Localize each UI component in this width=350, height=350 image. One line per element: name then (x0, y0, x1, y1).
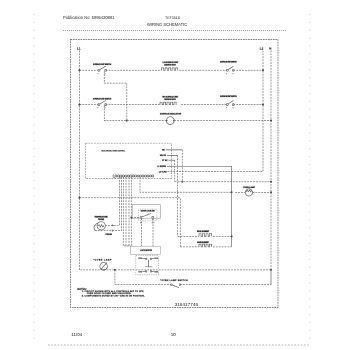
node dot L2 row2 (262, 104, 264, 106)
wire oven lamp branch (235, 191, 245, 193)
node dot BK join (181, 181, 183, 183)
surface unit switch SW3 (98, 101, 107, 106)
svg-text:SURFACE UNIT SWITCH: SURFACE UNIT SWITCH (93, 97, 112, 100)
resistor RH surface unit element (160, 102, 177, 104)
door lock switch inner dashed box (139, 209, 157, 221)
svg-text:BROIL ELEMENT: BROIL ELEMENT (197, 231, 209, 233)
lock contacts top row (138, 258, 158, 260)
node dot pilot join (126, 120, 128, 122)
node dot N indicator (270, 120, 272, 122)
EOC connector pin row (113, 175, 154, 178)
wire into lock switch (131, 217, 140, 219)
L1 rail (79, 51, 271, 270)
lamp oven cavity (245, 189, 252, 196)
svg-text:SURFACE UNIT SWITCH: SURFACE UNIT SWITCH (220, 95, 237, 98)
svg-text:LOCK MOTOR: LOCK MOTOR (140, 250, 153, 252)
lock contacts bottom row (138, 271, 158, 273)
switch oven lamp (171, 284, 181, 288)
electronic oven control EOC box (86, 143, 172, 178)
svg-text:L2 YL/RD: L2 YL/RD (159, 171, 168, 173)
svg-text:SURFACE UNIT SWITCH: SURFACE UNIT SWITCH (220, 61, 237, 64)
wire EOC CT out (169, 159, 175, 161)
svg-text:2350W 8 INCH: 2350W 8 INCH (164, 99, 176, 101)
wire sensor pin drop 2 (94, 177, 122, 231)
wire lock switch drops (142, 218, 154, 246)
wire row1 to L2 (233, 69, 263, 71)
node dot N 181.7 (270, 181, 272, 183)
surface unit switch SW4 (226, 101, 234, 106)
wire SW1 pilot drop (104, 71, 127, 120)
node dot L1 row1 (78, 69, 80, 71)
node dot lock switch feed (130, 217, 132, 219)
wire row2 to L2 (233, 104, 263, 106)
svg-text:SURFACE UNIT SWITCH: SURFACE UNIT SWITCH (93, 63, 112, 66)
svg-text:TEF351D: TEF351D (165, 16, 181, 20)
lamp surface indicator (166, 117, 175, 125)
footer rule (48, 344, 310, 346)
svg-text:10: 10 (171, 332, 177, 337)
wire pin drop to relay bus (140, 177, 232, 192)
sensor temperature probe (94, 222, 105, 231)
resistor bake element (180, 246, 199, 248)
N rail (270, 51, 272, 285)
svg-text:2. COMPONENTS NOTED BY AN * A: 2. COMPONENTS NOTED BY AN * ARE IN ON PO… (82, 294, 145, 297)
svg-text:2350W 8 INCH: 2350W 8 INCH (164, 65, 176, 67)
svg-text:L1: L1 (77, 46, 81, 50)
surface unit switch SW1 (98, 66, 107, 71)
wire row2 right (181, 104, 227, 106)
svg-text:SURFACE INDICATOR: SURFACE INDICATOR (160, 112, 182, 115)
node dot L2 row1 (262, 69, 264, 71)
svg-text:L2: L2 (260, 46, 264, 50)
wire switch pin drop (130, 177, 132, 246)
wire EOC WH out (167, 155, 178, 157)
wire row1 right (179, 69, 227, 71)
svg-text:L1 BK/WH: L1 BK/WH (157, 166, 166, 168)
wire row2 mid (106, 104, 160, 106)
svg-text:LH SURFACE UNIT: LH SURFACE UNIT (163, 61, 179, 64)
node dot N bottom (270, 269, 272, 271)
wire lock pin drop 1 (126, 177, 130, 246)
lamp oven bottom (100, 262, 108, 270)
wire lamp switch to N (180, 270, 271, 285)
header separator dotted line (63, 29, 287, 31)
wire broil drop (177, 192, 179, 236)
svg-text:*OVEN LAMP SWITCH: *OVEN LAMP SWITCH (160, 279, 188, 282)
L2 rail (262, 51, 264, 172)
svg-text:PROBE: PROBE (98, 219, 105, 221)
wire EOC L1 BUT out to bake broil feed (167, 166, 232, 247)
sensor lead connectors (112, 225, 114, 232)
wire SW3 pilot drop to indicator row (104, 106, 166, 121)
node dot L1 row2 (78, 104, 80, 106)
outer schematic dashed border (71, 40, 279, 308)
svg-text:RH SURFACE UNIT: RH SURFACE UNIT (162, 95, 179, 98)
svg-text:N: N (269, 46, 271, 50)
wire lock pin drop 0 (123, 177, 130, 246)
svg-text:*OVEN LAMP: *OVEN LAMP (94, 258, 112, 261)
node dot N lamp (270, 191, 272, 193)
svg-text:ELECTRONIC OVEN CONTROL: ELECTRONIC OVEN CONTROL (102, 150, 127, 152)
wire L1 long bus to bake (79, 198, 180, 247)
EOC pin labels right side (157, 150, 168, 174)
svg-text:WH RD: WH RD (160, 155, 167, 157)
wire row1 left (79, 69, 98, 71)
lock mechanical link (145, 260, 153, 267)
wire lamp switch branch (115, 270, 171, 285)
svg-text:11/04: 11/04 (71, 332, 82, 337)
wire EOC L2 out to L2 rail (168, 171, 264, 173)
svg-text:P38 GN: P38 GN (106, 234, 113, 236)
svg-text:316417746: 316417746 (175, 302, 199, 307)
svg-text:DOOR LOCK SW: DOOR LOCK SW (141, 211, 155, 213)
wire row2 left (79, 104, 98, 106)
door lock switch outer box (132, 205, 160, 219)
wire bus 181.7 to N (175, 181, 271, 183)
node dot broil bus (231, 191, 233, 193)
lock motor box (130, 246, 160, 254)
wire EOC BK out (166, 149, 183, 151)
wire lock pin drop 2 (128, 177, 130, 246)
node dot lamp junction (114, 269, 116, 271)
resistor broil element (178, 235, 199, 237)
svg-text:CT BK: CT BK (162, 160, 168, 162)
resistor LH surface unit element (161, 68, 178, 70)
switch door lock (140, 213, 154, 220)
wire row1 mid (106, 69, 161, 71)
page border dots (34, 14, 310, 344)
surface unit switch SW2 (226, 66, 234, 71)
node dot L1 bus (78, 197, 80, 199)
lock contact assembly box (136, 256, 159, 275)
node dot broil right (231, 235, 233, 237)
svg-text:WIRING SCHEMATIC: WIRING SCHEMATIC (147, 22, 187, 27)
wire sensor pin drop 1 (105, 177, 119, 225)
wire indicator to N (174, 120, 271, 122)
svg-text:Publication No: 5995420881: Publication No: 5995420881 (63, 15, 115, 20)
